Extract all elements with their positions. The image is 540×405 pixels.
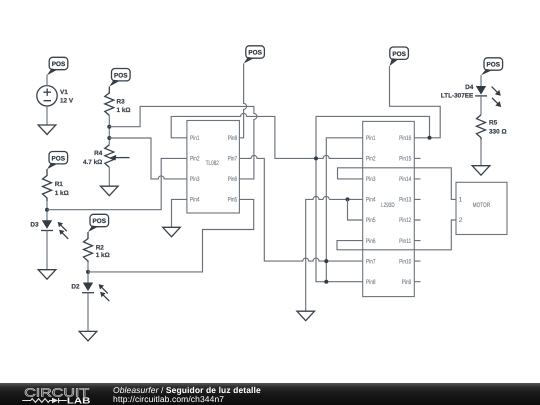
wire net vertical x316 down branch to Pin8 row [316, 158, 363, 281]
banner title text [113, 386, 261, 403]
svg-text:Pin7: Pin7 [228, 156, 238, 163]
svg-text:Pin8: Pin8 [228, 135, 238, 142]
svg-text:Pin14: Pin14 [399, 176, 411, 183]
ground (D3) [38, 270, 56, 280]
IC U2 L293D box [363, 121, 415, 296]
node R2/D2 junction [86, 270, 90, 274]
svg-text:D3: D3 [30, 222, 39, 229]
wire net vertical x316 up branch to Pin16 row [316, 116, 430, 158]
svg-text:R5: R5 [489, 120, 498, 127]
wire L293D Pin1/Pin7/Pin8 tie [326, 138, 362, 282]
svg-text:POS: POS [114, 72, 128, 79]
svg-text:POS: POS [93, 218, 107, 225]
ground (TL082 Pin4) [163, 227, 181, 237]
node junction Pin8 row [324, 280, 328, 284]
wire TL082 Pin5 to R2/D2 node [88, 199, 254, 272]
svg-text:D4: D4 [465, 84, 474, 91]
node junction Pin7 row [324, 259, 328, 263]
svg-text:POS: POS [248, 50, 262, 57]
node junction Pin16 row [428, 136, 432, 140]
svg-text:D2: D2 [71, 284, 80, 291]
POS tag V1 [47, 57, 68, 75]
ground (D2) [79, 331, 97, 341]
POS tag D4 [481, 58, 503, 75]
svg-text:Pin5: Pin5 [366, 217, 376, 224]
wire net R3 upper to TL082 Pin6 [109, 106, 257, 178]
LED D4 [441, 84, 501, 107]
svg-text:Pin9: Pin9 [402, 279, 412, 286]
svg-text:Pin3: Pin3 [366, 176, 376, 183]
wire L293D POS to Pin16 [390, 66, 441, 138]
svg-text:Pin10: Pin10 [399, 258, 411, 265]
node R1/D3 junction [45, 208, 49, 212]
node junction Pin4 row [346, 197, 350, 201]
photodiode D2 [71, 283, 109, 302]
svg-text:Pin13: Pin13 [399, 197, 411, 204]
POS tag R1 [47, 152, 68, 170]
svg-text:MOTOR: MOTOR [473, 202, 491, 209]
wire L293D Pin5 tie to Pin4 [348, 199, 363, 220]
svg-text:L293D: L293D [381, 202, 395, 209]
svg-text:Pin3: Pin3 [190, 176, 200, 183]
svg-text:Pin7: Pin7 [366, 258, 376, 265]
svg-text:4.7 kΩ: 4.7 kΩ [83, 159, 102, 166]
ground (R4) [101, 186, 119, 196]
voltage source V1 [37, 86, 74, 106]
wire net R3 lower to TL082 Pin3 [109, 138, 187, 179]
svg-text:330 Ω: 330 Ω [489, 129, 507, 136]
svg-text:R4: R4 [94, 150, 103, 157]
svg-text:2: 2 [459, 217, 463, 224]
svg-text:Pin5: Pin5 [228, 197, 238, 204]
wire R1 to D3 [46, 201, 48, 220]
wire D4 to R5 [480, 96, 482, 115]
ground (V1) [38, 125, 56, 135]
svg-text:1 kΩ: 1 kΩ [117, 107, 131, 114]
POS tag R2 [88, 214, 109, 232]
POS tag L293D [390, 47, 409, 66]
wire TL082 Pin7 to L293D Pin7 [239, 155, 362, 261]
svg-text:POS: POS [487, 62, 501, 69]
svg-text:Pin1: Pin1 [366, 135, 376, 142]
op-amp U1 TL082 box [187, 121, 240, 214]
resistor R5 [477, 115, 507, 140]
svg-text:1 kΩ: 1 kΩ [55, 190, 69, 197]
wire L293D right stubs [414, 158, 420, 281]
motor M1 box [456, 182, 507, 234]
svg-text:TL082: TL082 [206, 160, 219, 167]
resistor R3 [105, 87, 131, 116]
potentiometer R4 [83, 145, 130, 168]
svg-text:POS: POS [52, 155, 66, 162]
svg-text:LAB: LAB [67, 395, 90, 405]
svg-text:LTL-307EE: LTL-307EE [441, 93, 474, 100]
wire L293D Pin3 to MOTOR pin1 [338, 168, 457, 200]
svg-text:V1: V1 [60, 89, 68, 96]
svg-text:Pin4: Pin4 [366, 197, 376, 204]
ground (L293D Pin4/5) [297, 311, 315, 321]
ground (R5) [472, 166, 490, 176]
banner [0, 383, 540, 405]
wire POS to TL082 Pin8 [239, 64, 246, 138]
wire L293D Pin6 to MOTOR pin2 [337, 220, 456, 250]
svg-text:1: 1 [459, 197, 463, 204]
wire D2 to ground [87, 293, 89, 332]
wire TL082 Pin4 to ground [172, 199, 187, 227]
svg-text:Pin11: Pin11 [399, 238, 411, 245]
svg-text:R3: R3 [117, 99, 126, 106]
wire POS to D4 [480, 75, 482, 86]
node R3 upper junction [107, 125, 111, 129]
POS tag R3 [109, 69, 130, 87]
node R3 lower junction [107, 136, 111, 140]
svg-text:12 V: 12 V [60, 98, 74, 105]
CircuitLab logo [22, 385, 90, 405]
svg-text:Pin12: Pin12 [399, 217, 411, 224]
svg-text:R1: R1 [55, 181, 64, 188]
svg-text:Pin4: Pin4 [190, 197, 200, 204]
wire R5 to ground [480, 140, 482, 166]
wire V1 top [46, 75, 48, 86]
wire R3 to R4 [108, 115, 110, 144]
svg-text:R2: R2 [96, 244, 105, 251]
svg-text:Pin1: Pin1 [190, 135, 200, 142]
wire node to TL082 Pin2 net [47, 158, 187, 209]
node net junction x316 [314, 156, 318, 160]
resistor R2 [84, 232, 110, 262]
svg-text:Pin6: Pin6 [366, 238, 376, 245]
POS tag TL082 [244, 46, 265, 64]
photodiode D3 [30, 220, 68, 239]
wire TL082 Pin1 riser net [171, 113, 363, 158]
svg-text:Pin16: Pin16 [399, 135, 411, 142]
svg-text:Pin15: Pin15 [399, 156, 411, 163]
svg-text:Pin6: Pin6 [228, 176, 238, 183]
wire V1 bottom [46, 106, 48, 125]
svg-text:POS: POS [392, 51, 406, 58]
wire R2 to D2 [87, 262, 89, 283]
svg-text:Pin2: Pin2 [190, 156, 200, 163]
resistor R1 [43, 169, 69, 201]
svg-text:Pin2: Pin2 [366, 156, 376, 163]
svg-text:1 kΩ: 1 kΩ [96, 252, 110, 259]
wire D3 to ground [46, 231, 48, 270]
svg-text:POS: POS [52, 61, 66, 68]
wire R4 to ground [108, 167, 110, 186]
svg-text:Pin8: Pin8 [366, 279, 376, 286]
wire L293D Pin4 to ground net [306, 196, 363, 311]
